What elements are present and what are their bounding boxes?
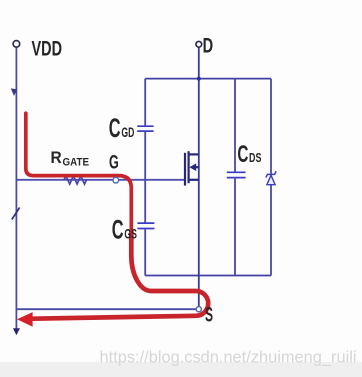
body diode (zener)	[267, 175, 275, 185]
source stub	[189, 179, 199, 181]
wire: main drain/source vertical (D to S)	[198, 47, 200, 309]
resistor R_GATE zigzag	[64, 176, 87, 184]
body stub	[196, 166, 199, 168]
transistor Q1 (MOSFET)	[185, 151, 199, 185]
gate bar	[184, 153, 186, 186]
wire: bottom source horizontal from rail to S	[16, 308, 198, 310]
MOSFET body arrow	[189, 163, 196, 171]
red current path	[26, 113, 132, 232]
svg-text:G: G	[109, 153, 119, 174]
node G circle	[113, 177, 119, 183]
node S circle	[196, 307, 201, 312]
terminal D circle	[196, 41, 202, 47]
wire: CDS branch vertical	[234, 79, 236, 276]
svg-text:R: R	[51, 148, 62, 167]
current-direction chevron on VDD rail	[11, 88, 17, 96]
svg-text:C: C	[109, 113, 121, 143]
svg-text:S: S	[205, 304, 213, 327]
svg-text:C: C	[112, 215, 124, 245]
svg-text:GD: GD	[121, 125, 134, 140]
switch slash on VDD rail	[12, 208, 20, 220]
wire: bottom box horizontal	[145, 275, 271, 277]
capacitor CDS plates	[227, 172, 246, 177]
wire: top box horizontal (drain bus)	[145, 78, 271, 80]
drain stub	[189, 153, 199, 155]
wire: body-diode branch vertical	[270, 79, 272, 276]
channel bar	[188, 151, 190, 183]
wire: left VDD rail vertical	[15, 47, 17, 329]
svg-text:GATE: GATE	[63, 156, 90, 168]
svg-text:C: C	[237, 141, 248, 168]
arrowhead at bottom of left rail	[13, 328, 20, 335]
capacitor CGD plates	[137, 126, 153, 131]
node junction at D bus	[197, 77, 201, 81]
wire: gate horizontal from rail to MOSFET gate	[16, 179, 185, 181]
terminal VDD circle	[13, 41, 20, 48]
svg-text:D: D	[203, 35, 214, 58]
svg-text:VDD: VDD	[32, 38, 63, 61]
red arrowhead	[17, 312, 33, 327]
svg-text:DS: DS	[249, 151, 261, 165]
svg-text:GS: GS	[124, 227, 137, 242]
capacitor CGS plates	[137, 223, 154, 228]
watermark band	[0, 362, 362, 377]
wire: CGD/CGS branch vertical	[144, 79, 146, 276]
svg-text:https://blog.csdn.net/zhuimeng: https://blog.csdn.net/zhuimeng_ruili	[100, 348, 357, 366]
